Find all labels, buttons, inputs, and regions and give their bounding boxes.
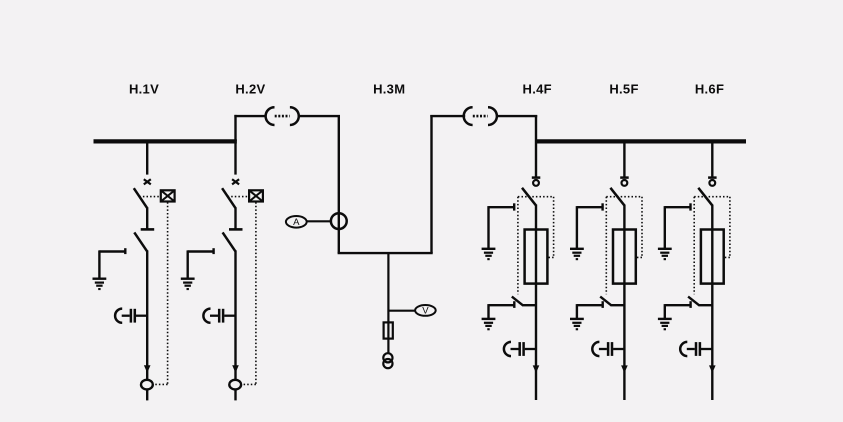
- bay H.6F: dashed striker linkage: [694, 197, 730, 295]
- bay H.5F: capacitive voltage indicator: [592, 342, 624, 356]
- fuse F (VT primary): [384, 322, 393, 338]
- wire: H.3M left riser: [338, 116, 340, 253]
- svg-text:H.5F: H.5F: [609, 82, 638, 97]
- bay H.6F: upper earthing switch: [665, 203, 691, 248]
- bay H.2V: cable arrow: [232, 365, 239, 373]
- busbar section 2 (right): [536, 139, 746, 143]
- bay H.6F: lower earthing switch: [665, 301, 691, 318]
- bay H.1V: earthing switch: [99, 248, 125, 278]
- bay H.2V: disconnector fixed contact bar: [229, 228, 243, 231]
- bay H.5F: wire from busbar: [623, 140, 625, 177]
- bay H.6F: upper ground symbol: [658, 249, 672, 260]
- bay H.6F: fixed contact bar: [708, 176, 717, 179]
- bay H.4F: lower ground symbol: [482, 319, 496, 330]
- bay H.6F: fuse: [701, 230, 724, 284]
- bay H.6F: lower ground symbol: [658, 319, 672, 330]
- bay H.5F: cable earthing switch blade: [600, 297, 624, 306]
- wire: voltage transformer drop: [387, 253, 389, 354]
- bay H.6F: capacitive voltage indicator: [680, 342, 712, 356]
- bay H.6F: fixed contact circle: [709, 180, 715, 186]
- bay H.2V: ground symbol: [181, 279, 195, 290]
- bay H.5F: fuse: [613, 230, 636, 284]
- bay H.4F: wire from busbar: [535, 115, 537, 177]
- bay H.1V: cable tail wire: [146, 390, 148, 401]
- wire: CT to ammeter: [307, 220, 332, 222]
- bay H.4F: load-break switch blade: [522, 188, 536, 205]
- bay H.5F: fixed contact bar: [620, 176, 629, 179]
- bay H.5F: load-break switch blade: [610, 188, 624, 205]
- bay H.5F: cable arrow: [621, 365, 628, 373]
- svg-text:A: A: [293, 217, 300, 228]
- bay H.6F: wire from busbar: [711, 140, 713, 177]
- bay H.4F: fixed contact bar: [532, 176, 541, 179]
- bay H.2V: breaker contact mark x: [232, 179, 239, 184]
- bay H.5F: main wire through fuse to cable: [623, 205, 625, 401]
- plug-in withdrawable link 1: [266, 107, 299, 125]
- current transformer H.3M: [331, 213, 347, 229]
- bay H.2V: main wire down to current transformer: [234, 250, 236, 380]
- bay H.1V: wire from busbar: [146, 140, 148, 175]
- bay H.4F: upper ground symbol: [482, 249, 496, 260]
- wire: riser to plug-in link 1: [234, 115, 266, 117]
- bay H.5F: upper ground symbol: [570, 249, 584, 260]
- bay H.1V: disconnector blade: [134, 232, 147, 251]
- wire: H.2V riser to transfer link: [234, 115, 236, 141]
- svg-text:H.1V: H.1V: [129, 82, 159, 97]
- bay H.5F: fixed contact circle: [622, 180, 628, 186]
- bay H.1V: wire between breaker and disconnector: [146, 207, 148, 229]
- wire: H.3M right riser: [430, 115, 432, 253]
- bay H.6F: cable earthing switch blade: [688, 297, 712, 306]
- bay H.2V: dashed linkage wire: [228, 197, 256, 385]
- plug-in withdrawable link 2: [464, 107, 497, 125]
- bay H.1V: disconnector fixed contact bar: [141, 228, 155, 231]
- wire: link 2 to H.4F riser: [496, 115, 537, 117]
- bay H.6F: main wire through fuse to cable: [711, 205, 713, 401]
- bay H.1V: interlock / motor drive box: [161, 190, 175, 201]
- bay H.2V: earthing switch: [188, 248, 214, 278]
- bay H.2V: interlock / motor drive box: [249, 190, 263, 201]
- bay H.1V: breaker contact mark x: [144, 179, 151, 184]
- bay H.6F: cable arrow: [709, 365, 716, 373]
- bay H.1V: dashed linkage wire: [139, 197, 167, 385]
- svg-text:H.3M: H.3M: [373, 82, 405, 97]
- bay H.2V: current transformer ring: [229, 380, 241, 390]
- bay H.1V: cable arrow: [144, 365, 151, 373]
- bay H.4F: lower earthing switch: [489, 301, 515, 318]
- svg-text:H.4F: H.4F: [523, 82, 552, 97]
- bay H.5F: lower ground symbol: [570, 319, 584, 330]
- bay H.1V: main wire down to current transformer: [146, 250, 148, 380]
- bay H.4F: fuse: [525, 230, 548, 284]
- bay H.2V: disconnector blade: [223, 232, 236, 251]
- bay H.4F: main wire through fuse to cable: [535, 205, 537, 401]
- wire: H.3M to plug-in link 2: [430, 115, 465, 117]
- wire: tap to voltmeter: [388, 310, 415, 312]
- busbar section 1 (left): [94, 139, 237, 143]
- bay H.4F: cable arrow: [533, 365, 540, 373]
- wire: link 1 to H.3M: [298, 115, 340, 117]
- bay H.4F: capacitive voltage indicator: [504, 342, 536, 356]
- bay H.4F: fixed contact circle: [533, 180, 539, 186]
- bay H.4F: dashed striker linkage: [518, 197, 554, 295]
- bay H.2V: capacitive voltage indicator: [203, 309, 235, 323]
- ammeter A: [286, 216, 307, 228]
- voltage transformer windings: [383, 353, 392, 368]
- bay H.2V: cable tail wire: [234, 390, 236, 401]
- bay H.2V: circuit-breaker blade: [222, 188, 235, 208]
- svg-text:H.6F: H.6F: [695, 82, 724, 97]
- bay H.4F: upper earthing switch: [489, 203, 515, 248]
- bay H.2V: wire from busbar: [234, 140, 236, 175]
- bay H.4F: cable earthing switch blade: [512, 297, 536, 306]
- svg-text:H.2V: H.2V: [235, 82, 265, 97]
- bay H.1V: ground symbol: [93, 279, 107, 290]
- bay H.1V: circuit-breaker blade: [134, 188, 147, 208]
- svg-text:V: V: [422, 306, 429, 317]
- bay H.5F: lower earthing switch: [577, 301, 603, 318]
- wire: H.3M bottom run: [338, 252, 433, 254]
- bay H.5F: dashed striker linkage: [606, 197, 642, 295]
- bay H.1V: current transformer ring: [141, 380, 153, 390]
- voltmeter V: [415, 305, 436, 317]
- bay H.5F: upper earthing switch: [577, 203, 603, 248]
- bay H.6F: load-break switch blade: [698, 188, 712, 205]
- bay H.2V: wire between breaker and disconnector: [234, 207, 236, 229]
- bay H.1V: capacitive voltage indicator: [115, 309, 147, 323]
